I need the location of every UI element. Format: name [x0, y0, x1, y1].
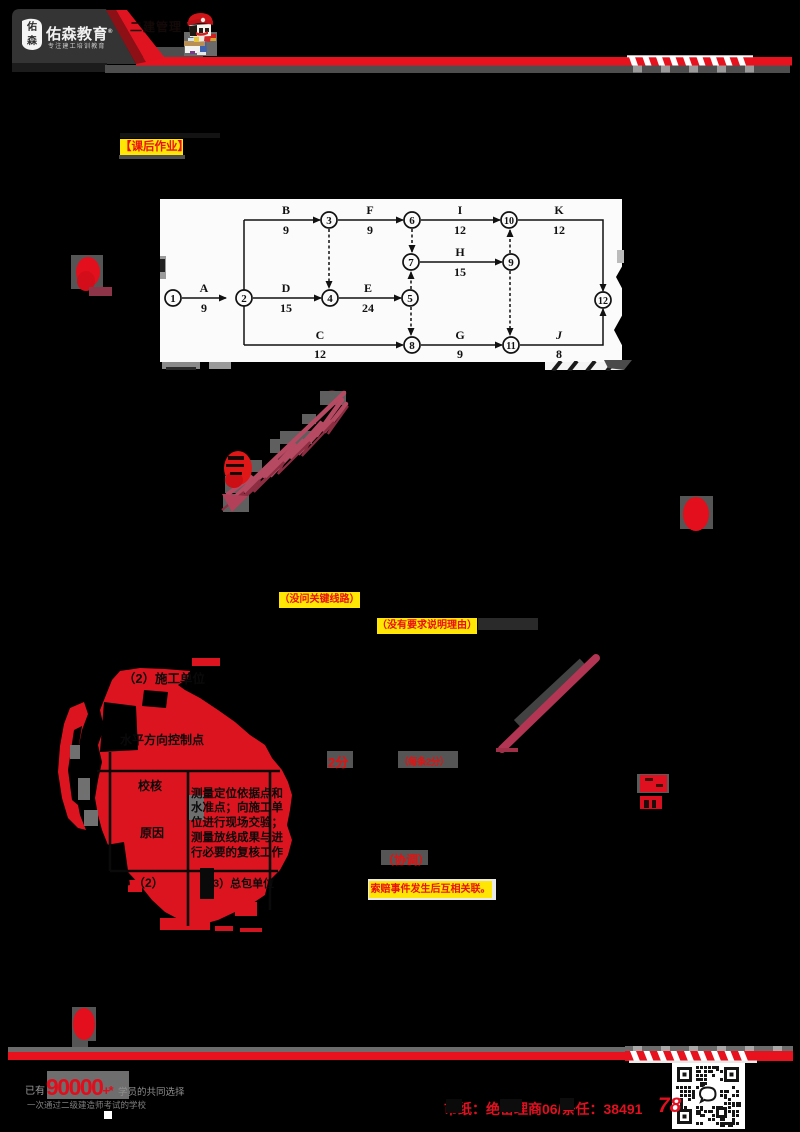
wire 2 up corner to B row: [243, 220, 245, 298]
node 6: [404, 212, 420, 228]
svg-text:6: 6: [409, 215, 415, 227]
crescent inner black: [68, 726, 82, 805]
svg-text:12: 12: [454, 223, 466, 237]
gray smudge under tag: [119, 155, 185, 159]
black notch top-middle: [100, 702, 138, 752]
svg-text:原因: 原因: [140, 825, 164, 840]
node 1: [165, 290, 181, 306]
label A/9: [200, 281, 209, 315]
label D/15: [280, 281, 292, 315]
svg-text:10: 10: [504, 216, 514, 227]
label B/9: [282, 203, 290, 237]
footer right red address: [444, 1099, 642, 1119]
svg-text:15: 15: [454, 265, 466, 279]
svg-text:8: 8: [409, 340, 415, 352]
gray patches along band: [223, 391, 346, 512]
node 3: [321, 212, 337, 228]
arrow G 8->11: [421, 344, 502, 346]
yellow bib: [194, 35, 199, 42]
label F/9: [366, 203, 373, 237]
black hatch marks on white tab: [545, 361, 625, 371]
svg-text:5: 5: [407, 293, 413, 305]
black gap lower-left: [106, 842, 130, 888]
svg-text:D: D: [282, 281, 291, 295]
arrow C 2->8: [244, 344, 403, 346]
white stripes on red bar: [627, 55, 753, 57]
dark ribbon text 二建: [130, 18, 182, 35]
gray remnants below box: [162, 362, 200, 369]
svg-text:4: 4: [327, 293, 333, 305]
red bottom speckles: [215, 926, 262, 932]
wire 2 down corner to C row: [243, 298, 245, 345]
svg-text:2: 2: [241, 293, 247, 305]
svg-text:行必要的复核工作: 行必要的复核工作: [190, 845, 283, 859]
red-yellow book right: [205, 37, 216, 41]
svg-text:测量放线成果与进: 测量放线成果与进: [191, 830, 283, 844]
svg-text:位进行现场交验；: 位进行现场交验；: [191, 815, 283, 829]
right edge notches: [612, 250, 624, 355]
ribbon bright red face: [116, 10, 165, 62]
gray patch right of middle line: [189, 795, 204, 820]
svg-text:11: 11: [506, 341, 515, 352]
pink triangle: [222, 494, 248, 512]
arrow E 4->5: [339, 297, 401, 299]
svg-text:1: 1: [170, 293, 176, 305]
shadow under banner: [12, 63, 107, 72]
black blotches over address: [446, 1099, 462, 1113]
faint dark row above: [120, 133, 220, 138]
footer red bar: [8, 1052, 790, 1060]
dummy 5->8 dashed: [410, 307, 412, 335]
diagonal red stroke: [490, 645, 610, 760]
svg-text:12: 12: [598, 296, 608, 307]
svg-text:H: H: [455, 245, 465, 259]
svg-text:12: 12: [553, 223, 565, 237]
label I/12: [454, 203, 466, 237]
svg-text:校核: 校核: [138, 778, 162, 793]
red text 协调: [381, 850, 428, 865]
logo seal: [20, 18, 44, 51]
dummy 5->7 dashed: [410, 272, 412, 289]
gray backdrop: [184, 32, 217, 56]
svg-text:C: C: [316, 328, 325, 342]
svg-text:（2）施工单位: （2）施工单位: [123, 671, 205, 686]
node 7: [403, 254, 419, 270]
svg-text:7: 7: [408, 257, 414, 269]
svg-text:3: 3: [326, 215, 332, 227]
red arm: [204, 33, 211, 42]
svg-text:9: 9: [283, 223, 289, 237]
nodes: [165, 212, 611, 353]
svg-text:24: 24: [362, 301, 374, 315]
svg-text:15: 15: [280, 301, 292, 315]
black texts: [120, 671, 283, 899]
svg-text:E: E: [364, 281, 372, 295]
svg-text:9: 9: [457, 347, 463, 361]
black hole upper area: [142, 690, 168, 708]
node 12: [595, 292, 611, 308]
node 8: [404, 337, 420, 353]
svg-text:9: 9: [508, 257, 514, 269]
red scribble mark right (683,496): [680, 496, 713, 529]
footer left text: [47, 1071, 129, 1099]
svg-text:12: 12: [314, 347, 326, 361]
svg-text:8: 8: [556, 347, 562, 361]
arrow I 6->10: [421, 219, 500, 221]
node 11: [503, 337, 519, 353]
node 9: [503, 254, 519, 270]
svg-text:F: F: [366, 203, 373, 217]
dummy 9->10 dashed: [509, 230, 511, 253]
svg-text:G: G: [455, 328, 464, 342]
gray smudge bottom right of box: [604, 360, 634, 372]
arrow D 2->4: [253, 297, 321, 299]
dark red dot below box: [322, 388, 342, 402]
dummy 9->11 dashed: [509, 271, 511, 335]
arrow B 2->3: [244, 219, 320, 221]
red mark bottom-left (72,1008): [72, 1007, 96, 1041]
footer gray bar: [8, 1047, 790, 1052]
scribble band strokes: [228, 393, 346, 502]
svg-text:森: 森: [26, 34, 38, 47]
alternating gray blocks under stripes: [633, 66, 754, 73]
ribbon dark red fold: [106, 10, 146, 64]
eyes: [199, 28, 203, 33]
svg-text:K: K: [554, 203, 564, 217]
dummy 6->7 dashed: [411, 229, 413, 252]
svg-text:I: I: [458, 203, 463, 217]
wire K 10->corner->12: [518, 220, 603, 291]
node 5: [402, 290, 418, 306]
dummy 3->4 dashed: [328, 229, 330, 288]
bright red blob: [224, 451, 252, 485]
svg-text:9: 9: [367, 223, 373, 237]
svg-text:水准点；向施工单: 水准点；向施工单: [191, 800, 283, 814]
QR code: [672, 1063, 745, 1129]
body: [193, 32, 208, 42]
shoes: [197, 52, 206, 55]
main blob: [95, 668, 292, 925]
label J/8: [555, 328, 563, 361]
label G/9: [455, 328, 464, 361]
blue jeans: [197, 39, 207, 53]
yellow tag 课后作业: [120, 139, 183, 155]
left edge marks inside box: [160, 256, 166, 279]
svg-text:佑: 佑: [26, 20, 37, 33]
header banner dark: [0, 0, 800, 80]
svg-text:B: B: [282, 203, 290, 217]
label C/12: [314, 328, 326, 361]
svg-text:（3）总包单位: （3）总包单位: [202, 876, 274, 890]
left crescent: [58, 702, 88, 830]
svg-text:水平方向控制点: 水平方向控制点: [120, 732, 204, 747]
label K/12: [553, 203, 565, 237]
books stack left: [188, 38, 200, 42]
ragged edge specks: [128, 658, 257, 930]
arrow A 1->2: [182, 297, 226, 299]
footer stripes: [625, 1046, 795, 1064]
svg-text:9: 9: [201, 301, 207, 315]
label H/15: [454, 245, 466, 279]
gray shadow bar: [105, 65, 790, 73]
arrow F 3->6: [338, 219, 403, 221]
table lines: [97, 752, 280, 926]
gray patches along crescent: [70, 745, 98, 826]
yellow tag 索赔: [368, 879, 496, 900]
label E/24: [362, 281, 374, 315]
svg-text:A: A: [200, 281, 209, 295]
node 2: [236, 290, 252, 306]
wire J 11->corner->12: [520, 309, 603, 345]
big red cap: [188, 13, 213, 25]
red collar: [196, 31, 208, 36]
gray patch behind mascot: [151, 47, 203, 64]
svg-text:J: J: [555, 328, 563, 342]
svg-text:测量定位依据点和: 测量定位依据点和: [191, 786, 283, 800]
face: [189, 24, 211, 37]
red horizontal bar: [136, 57, 792, 66]
dark left face patch: [189, 25, 197, 36]
banner dark quad: [12, 9, 136, 64]
svg-text:（2）: （2）: [133, 875, 164, 890]
ragged white tab bottom right: [545, 362, 624, 370]
mascot: [183, 9, 217, 57]
node 10: [501, 212, 517, 228]
red blob pair right (640,776): [637, 774, 669, 793]
node 4: [322, 290, 338, 306]
logo text: [46, 23, 116, 44]
arrow H 7->9: [420, 261, 502, 263]
